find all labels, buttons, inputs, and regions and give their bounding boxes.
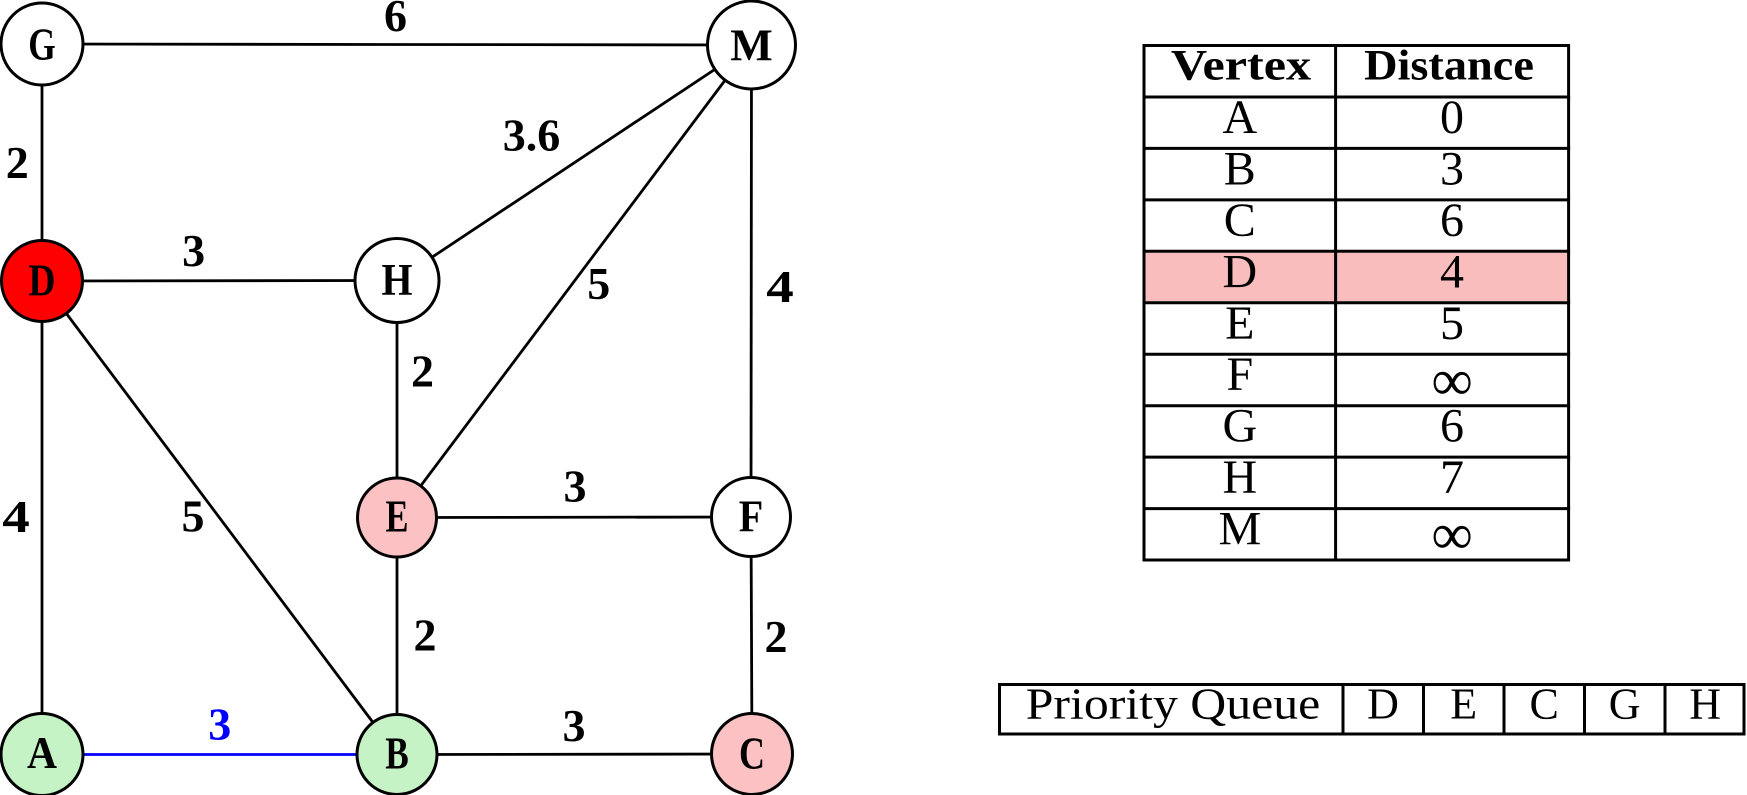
node M bbox=[708, 1, 796, 89]
svg-text:3.6: 3.6 bbox=[503, 110, 561, 161]
svg-text:6: 6 bbox=[1440, 400, 1464, 453]
svg-text:∞: ∞ bbox=[1431, 502, 1472, 567]
wire edge G-D bbox=[41, 44, 44, 281]
wire edge F-C bbox=[751, 517, 752, 754]
svg-text:2: 2 bbox=[765, 611, 788, 662]
node A green bbox=[1, 714, 83, 795]
svg-text:A: A bbox=[1222, 91, 1257, 144]
svg-text:2: 2 bbox=[6, 137, 29, 188]
svg-text:M: M bbox=[1218, 503, 1261, 556]
svg-text:H: H bbox=[1689, 679, 1721, 728]
table outer border bbox=[1144, 46, 1569, 561]
svg-text:E: E bbox=[1225, 297, 1254, 350]
table row line 9 bbox=[1143, 507, 1571, 510]
queue divider 5 bbox=[1664, 683, 1667, 735]
wire edge H-M bbox=[397, 45, 752, 281]
svg-text:E: E bbox=[1450, 679, 1477, 728]
table row line 3 bbox=[1143, 198, 1571, 201]
priority queue grid bbox=[1000, 683, 1745, 735]
table column divider bbox=[1334, 44, 1337, 560]
wire edge D-B bbox=[42, 281, 397, 755]
svg-text:0: 0 bbox=[1440, 91, 1464, 144]
svg-text:M: M bbox=[730, 20, 772, 70]
table row line 6 bbox=[1143, 353, 1571, 356]
svg-text:5: 5 bbox=[1440, 297, 1464, 350]
node C pink bbox=[712, 714, 793, 795]
wire edge D-H bbox=[42, 279, 397, 282]
wire edge B-C bbox=[397, 753, 752, 756]
wire edge E-B bbox=[396, 518, 399, 755]
queue divider 4 bbox=[1583, 683, 1586, 735]
svg-text:3: 3 bbox=[182, 225, 205, 276]
svg-text:E: E bbox=[386, 492, 409, 542]
svg-text:2: 2 bbox=[414, 610, 437, 661]
wire edge M-E bbox=[397, 45, 752, 518]
wire edge G-M bbox=[42, 44, 752, 45]
svg-text:H: H bbox=[1222, 451, 1257, 504]
node B green bbox=[357, 715, 437, 795]
svg-text:4: 4 bbox=[766, 261, 794, 312]
wire edge M-F bbox=[750, 45, 753, 517]
node F bbox=[712, 478, 791, 557]
svg-text:B: B bbox=[385, 729, 409, 779]
svg-text:4: 4 bbox=[1440, 245, 1464, 298]
svg-text:C: C bbox=[739, 729, 765, 779]
svg-text:6: 6 bbox=[384, 0, 407, 41]
svg-text:3: 3 bbox=[563, 700, 586, 751]
table row line 2 bbox=[1143, 147, 1571, 150]
queue divider 2 bbox=[1422, 683, 1425, 735]
svg-text:3: 3 bbox=[1440, 142, 1464, 195]
svg-text:G: G bbox=[1222, 400, 1257, 453]
distance table grid bbox=[1143, 44, 1571, 560]
svg-text:D: D bbox=[1222, 245, 1257, 298]
node H bbox=[355, 239, 439, 323]
svg-text:2: 2 bbox=[411, 345, 434, 396]
svg-text:D: D bbox=[1367, 679, 1399, 728]
table row line 8 bbox=[1143, 456, 1571, 459]
table row line 7 bbox=[1143, 404, 1571, 407]
queue divider 1 bbox=[1342, 683, 1345, 735]
node G bbox=[1, 3, 83, 85]
wire edge H-E bbox=[396, 281, 399, 518]
distance table highlighted row D bbox=[1146, 253, 1568, 301]
node E pink bbox=[358, 478, 437, 557]
svg-text:D: D bbox=[29, 256, 56, 306]
table row line 1 bbox=[1143, 96, 1571, 99]
svg-text:G: G bbox=[28, 20, 56, 70]
svg-text:4: 4 bbox=[2, 491, 29, 542]
svg-text:Priority Queue: Priority Queue bbox=[1026, 679, 1321, 728]
queue outer border bbox=[1000, 685, 1745, 735]
node D red bbox=[2, 241, 83, 322]
svg-text:F: F bbox=[739, 492, 764, 542]
svg-text:5: 5 bbox=[587, 258, 610, 309]
table row line 5 bbox=[1143, 301, 1571, 304]
svg-text:B: B bbox=[1224, 142, 1256, 195]
svg-text:3: 3 bbox=[564, 461, 587, 512]
svg-text:Distance: Distance bbox=[1364, 42, 1534, 89]
queue divider 3 bbox=[1503, 683, 1506, 735]
svg-text:H: H bbox=[382, 255, 413, 305]
wire edge E-F bbox=[397, 516, 751, 519]
wire edge A-B blue bbox=[42, 753, 397, 756]
svg-text:C: C bbox=[1224, 194, 1256, 247]
table row line 4 bbox=[1143, 250, 1571, 253]
svg-text:6: 6 bbox=[1440, 194, 1464, 247]
wire edge D-A bbox=[41, 281, 44, 755]
svg-text:F: F bbox=[1226, 348, 1253, 401]
svg-text:C: C bbox=[1530, 679, 1559, 728]
svg-text:Vertex: Vertex bbox=[1171, 42, 1312, 89]
svg-text:7: 7 bbox=[1440, 451, 1464, 504]
svg-text:3: 3 bbox=[208, 699, 231, 750]
svg-text:A: A bbox=[27, 728, 57, 778]
svg-text:5: 5 bbox=[182, 491, 205, 542]
svg-text:G: G bbox=[1609, 679, 1641, 728]
